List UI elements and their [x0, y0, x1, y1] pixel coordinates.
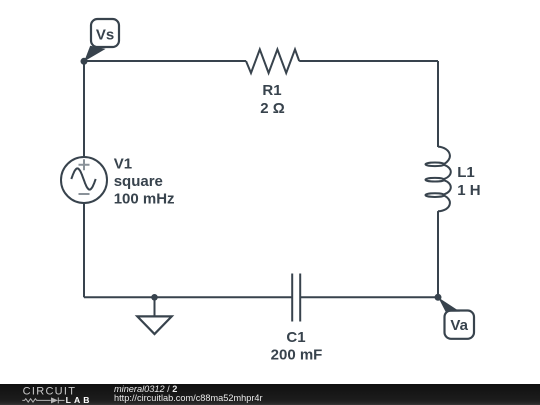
- inductor L1: [426, 147, 451, 212]
- label R1: [262, 82, 281, 99]
- svg-text:http://circuitlab.com/c88ma52m: http://circuitlab.com/c88ma52mhpr4r: [114, 393, 263, 403]
- node Va flag box: [445, 311, 475, 339]
- wire bottom-right segment: [300, 296, 438, 298]
- svg-text:Vs: Vs: [96, 26, 114, 43]
- V1 polarity plus: [79, 159, 90, 170]
- node Vs flag box: [91, 19, 119, 47]
- svg-text:100 mHz: 100 mHz: [114, 191, 175, 208]
- node Vs flag tail: [84, 46, 105, 62]
- ground junction dot: [151, 294, 158, 301]
- wire left upper: [83, 61, 85, 157]
- node Vs flag text: [96, 26, 114, 43]
- label C1: [286, 329, 305, 346]
- svg-text:Va: Va: [450, 317, 468, 334]
- wire right upper: [437, 61, 439, 147]
- node Va junction dot: [435, 294, 442, 301]
- wire right lower: [437, 211, 439, 297]
- CircuitLab logo schematic (resistor + diode): [22, 397, 64, 403]
- resistor R1: [246, 49, 299, 73]
- value 100 mHz: [114, 191, 175, 208]
- svg-text:2 Ω: 2 Ω: [260, 100, 285, 117]
- label L1: [457, 164, 475, 181]
- wire top-left segment: [84, 60, 246, 62]
- node Va flag tail: [438, 297, 460, 311]
- svg-text:V1: V1: [114, 156, 132, 173]
- node Vs junction dot: [81, 58, 88, 65]
- value 200 mF: [271, 347, 323, 364]
- wire bottom-left segment: [84, 296, 292, 298]
- CircuitLab logo wordmark: [23, 386, 93, 405]
- svg-text:L1: L1: [457, 164, 475, 181]
- footer title text: [114, 384, 263, 403]
- wire top-right segment: [299, 60, 438, 62]
- svg-text:C1: C1: [286, 329, 305, 346]
- wire left lower (source to bottom): [83, 203, 85, 297]
- value square: [114, 173, 163, 190]
- node Va flag text: [450, 317, 468, 334]
- V1 polarity minus: [79, 193, 90, 195]
- svg-text:1 H: 1 H: [457, 182, 480, 199]
- value 2 ohm: [260, 100, 285, 117]
- svg-text:LAB: LAB: [66, 395, 93, 405]
- footer bar: [0, 384, 540, 405]
- svg-text:R1: R1: [262, 82, 281, 99]
- svg-text:square: square: [114, 173, 163, 190]
- voltage source V1: [61, 157, 107, 203]
- label V1: [114, 156, 132, 173]
- capacitor C1: [292, 274, 300, 322]
- ground symbol: [137, 297, 171, 334]
- value 1 H: [457, 182, 480, 199]
- svg-text:200 mF: 200 mF: [271, 347, 323, 364]
